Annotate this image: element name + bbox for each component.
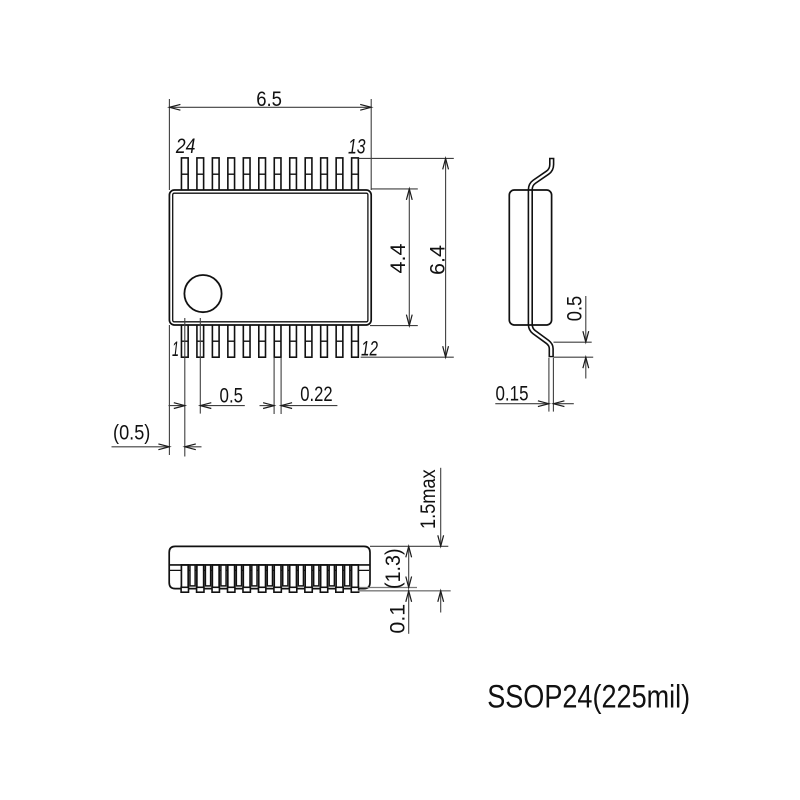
front-view: near-row leads (pins 1-12)	[181, 565, 358, 588]
front-view: lead feet	[181, 587, 359, 592]
front-view dimension 0.1 (standoff)	[408, 591, 410, 634]
svg-text:6.4: 6.4	[427, 245, 450, 275]
side-view dimension 0.5 (foot height)	[554, 296, 594, 379]
front-view dimension (1.3) (body height)	[408, 546, 410, 587]
svg-text:0.5: 0.5	[563, 296, 586, 321]
dimension (0.5) (edge to pin1 center)	[112, 325, 202, 455]
dimension 4.4 (body height)	[370, 189, 418, 326]
top-view: pin 1 index circle	[184, 275, 221, 312]
top-view: package body outline (double line)	[169, 190, 371, 325]
front-view: far-row leads (half-pitch offset)	[190, 565, 350, 586]
front-view: mold gap line behind leads	[170, 569, 369, 571]
svg-text:4.4: 4.4	[387, 243, 410, 273]
front-view: body bottom extension line	[360, 587, 417, 589]
svg-text:13: 13	[348, 135, 366, 158]
top-view: bottom pin row (pins 1..12)	[181, 324, 358, 357]
side-view dimension 0.15 (lead thickness)	[495, 358, 574, 412]
dimension 6.5 (body width)	[169, 99, 371, 190]
svg-text:24: 24	[175, 135, 195, 158]
dimension 6.4 (overall width incl pins)	[359, 158, 454, 357]
front-view: package body outline	[169, 546, 370, 588]
svg-text:6.5: 6.5	[256, 88, 282, 111]
dimension 0.22 (pin width)	[260, 358, 338, 415]
side-view: lead (gull wing strip)	[530, 158, 551, 358]
svg-text:0.15: 0.15	[496, 383, 529, 406]
svg-text:1: 1	[172, 338, 179, 361]
side-view: package body	[509, 190, 551, 325]
svg-text:(1.3): (1.3)	[382, 548, 405, 589]
front-view: parting line	[169, 564, 370, 566]
svg-text:0.1: 0.1	[386, 604, 409, 634]
svg-text:0.22: 0.22	[300, 383, 332, 406]
svg-text:(0.5): (0.5)	[113, 421, 150, 444]
front-view: seating plane line	[358, 590, 451, 592]
front-view dimension 1.5max (overall height)	[370, 468, 448, 613]
top-view: top pin row (pins 24..13)	[181, 158, 358, 191]
svg-text:0.5: 0.5	[220, 385, 244, 408]
svg-text:1.5max: 1.5max	[417, 469, 440, 529]
svg-text:SSOP24(225mil): SSOP24(225mil)	[487, 679, 690, 715]
dimension 0.5 (pin pitch)	[169, 318, 245, 457]
